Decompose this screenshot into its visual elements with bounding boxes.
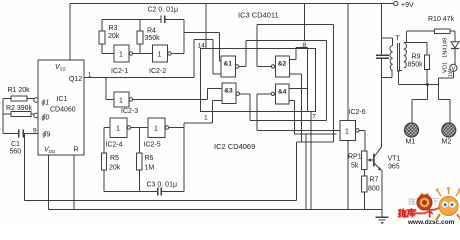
svg-text:IC2-2: IC2-2: [149, 68, 166, 75]
svg-text:IC2-5: IC2-5: [144, 142, 161, 149]
wire R9 bottom to output line: [426, 70, 428, 85]
ground symbol: [376, 217, 389, 222]
resistor R10: [434, 29, 450, 34]
svg-text:800: 800: [368, 186, 380, 193]
capacitor C2: [161, 16, 165, 24]
svg-text:20k: 20k: [109, 165, 121, 172]
svg-text:M2: M2: [442, 139, 452, 146]
svg-text:R9: R9: [412, 54, 421, 61]
wire IC2-4 input / R5 top: [104, 128, 110, 154]
wire pin8 net vertical inside box: [307, 48, 309, 112]
potentiometer RP1: [361, 151, 374, 170]
wire IC2-4 out to IC2-5 in / R6 top: [129, 128, 148, 154]
svg-text:R: R: [74, 147, 79, 154]
svg-text:1: 1: [204, 115, 208, 122]
svg-text:R3: R3: [109, 25, 118, 32]
transistor VT1: [374, 147, 382, 171]
wire osc2 to &3 input B: [184, 101, 222, 124]
svg-text:20k: 20k: [108, 33, 120, 40]
wire secondary top to R9/R10: [404, 31, 434, 42]
svg-text:IC2-4: IC2-4: [106, 142, 123, 149]
wire osc1 top node: [102, 19, 161, 21]
wire C1 row to pin9: [3, 133, 38, 135]
svg-text:&3: &3: [224, 88, 233, 95]
transformer core: [397, 43, 399, 72]
IC3 CD4011 outline box: [201, 49, 316, 112]
wire V meter bottom to output line: [439, 72, 454, 85]
svg-text:T: T: [396, 36, 401, 43]
wire output line: [399, 84, 439, 86]
wire RP1 bottom to R7: [363, 170, 365, 177]
wire R9 top: [426, 43, 428, 56]
svg-text:Q12: Q12: [69, 76, 82, 83]
svg-text:1M: 1M: [145, 165, 155, 172]
wire +9V to IC3 pin8: [303, 4, 305, 43]
oscillator 1: R3 R4 C2 IC2-1 IC2-2: [102, 20, 221, 62]
terminal +9V: [394, 1, 398, 5]
resistor R5: [101, 153, 106, 170]
svg-text:1: 1: [119, 98, 123, 105]
wire left vertical tie R1/R2/C1: [2, 99, 4, 134]
nand gate &1: [221, 56, 239, 77]
wire Q12 up-over to &1 input B: [194, 40, 221, 78]
wire VT1 emitter to ground: [381, 171, 383, 217]
svg-text:560: 560: [10, 149, 22, 156]
wire +9V to transformer/C4: [381, 4, 383, 56]
wire y134 drop to rail B: [305, 134, 307, 210]
wire Q12 branch down to IC2-3 input: [106, 78, 114, 100]
wire &4 input B down: [289, 100, 336, 134]
wire +9V to IC2-6 power: [347, 4, 349, 121]
wire R2 row: [3, 113, 34, 115]
svg-text:R2 390k: R2 390k: [6, 105, 33, 112]
svg-text:CD4060: CD4060: [50, 107, 76, 114]
watermark mascot right: [425, 187, 460, 220]
svg-text:RP1: RP1: [348, 154, 362, 161]
IC1 CD4060 box: [38, 60, 84, 155]
svg-text:ϕ1: ϕ1: [42, 100, 50, 107]
wire &2 input A tied to pin8: [289, 48, 307, 60]
speaker M2: [442, 123, 456, 137]
svg-text:R5: R5: [110, 155, 119, 162]
wire &2 output over the top to right drop: [257, 24, 334, 142]
wire IC1 R pin down: [73, 155, 75, 210]
wire VT1 collector up to transformer: [381, 78, 383, 147]
inverter IC2-2: [153, 45, 172, 62]
wire R7 bottom to rail B: [363, 192, 365, 210]
oscillator 2: IC2-4 IC2-5 R5 R6 C3: [104, 101, 222, 192]
wire IC2-3 output to &3 input A: [133, 89, 222, 100]
wire IC2-6 ground lead: [347, 140, 349, 210]
svg-text:R6: R6: [145, 155, 154, 162]
wire +9V to IC3 pin14: [205, 4, 207, 49]
resistor R7: [361, 176, 367, 192]
wire branch osc1 to gate &1 input A: [184, 33, 221, 62]
svg-text:1: 1: [119, 52, 123, 59]
wire primary top link: [382, 38, 393, 46]
inverter IC2-5: [148, 118, 169, 138]
wire C2 right to feedback: [165, 19, 184, 21]
svg-text:5k: 5k: [351, 163, 359, 170]
svg-text:1: 1: [158, 52, 162, 59]
watermark ghost text: [409, 198, 439, 205]
junction node output: [426, 83, 429, 86]
wire R6 bottom to C3 line: [138, 170, 140, 192]
wire R1 row: [3, 98, 34, 100]
svg-text:M1: M1: [406, 139, 416, 146]
wire &4 input A: [289, 87, 308, 89]
wire R4 leg: [139, 20, 141, 54]
svg-text:www.dzsc.com: www.dzsc.com: [407, 219, 455, 225]
wire M2 branch: [439, 85, 450, 124]
wire R5 bottom to C3 line: [103, 170, 105, 192]
svg-text:350k: 350k: [145, 35, 161, 42]
resistor R6: [137, 153, 142, 170]
speaker M1: [405, 123, 419, 137]
pin bubble phi1: [34, 98, 38, 102]
inverter IC2-3: [114, 92, 133, 107]
wire IC2-6 out to RP1: [359, 130, 365, 151]
pin bubble phi0: [34, 113, 38, 117]
Q12 output net: [84, 40, 221, 100]
nand gate &4 (mirrored): [271, 84, 289, 104]
wire IC2-5 out: [169, 127, 184, 129]
label pin 8: [301, 41, 307, 47]
wire cross link y142: [297, 141, 334, 143]
svg-text:&4: &4: [278, 89, 287, 96]
wire feedback vertical to IC2-2 out: [171, 20, 184, 54]
wire Q12 to right: [84, 77, 194, 79]
wire &3 output to right drop: [240, 94, 327, 121]
wire rail A up link: [296, 142, 298, 201]
wire IC3 pin7 ground: [310, 112, 312, 210]
svg-text:R10 47k: R10 47k: [428, 16, 455, 23]
svg-text:ϕ̄9: ϕ̄9: [43, 132, 51, 139]
transformer secondary winding: [404, 43, 407, 68]
wire top +9V rail: [70, 3, 394, 5]
wire R3 leg: [102, 20, 114, 54]
svg-text:&2: &2: [278, 61, 287, 68]
svg-text:1: 1: [345, 129, 349, 136]
capacitor C4 across primary: [376, 55, 389, 58]
wire IC2-1 out to IC2-2 in: [133, 53, 153, 55]
wire secondary bottom down: [399, 70, 403, 84]
wire &1 output over the top to right drop: [239, 40, 327, 120]
svg-text:14: 14: [198, 43, 206, 50]
wire diode to V meter: [454, 49, 456, 65]
inverter IC2-1: [114, 45, 133, 62]
resistor R1: [11, 96, 27, 101]
wire &2 input B down: [289, 74, 301, 142]
svg-text:C2 0. 01μ: C2 0. 01μ: [148, 7, 179, 14]
meter V symbol: [450, 64, 457, 72]
wire C1 right down to bottom rail A: [23, 134, 25, 201]
resistor R2: [11, 112, 31, 117]
wire IC1 VDD down: [47, 155, 49, 210]
inverter IC2-6: [340, 121, 359, 141]
transformer T primary winding: [390, 46, 393, 71]
svg-text:1: 1: [154, 126, 158, 133]
svg-text:+9V: +9V: [401, 2, 414, 9]
watermark mascot left: [417, 193, 432, 211]
svg-text:7: 7: [312, 114, 316, 121]
svg-text:R1 20k: R1 20k: [8, 87, 31, 94]
svg-text:C3 0. 01μ: C3 0. 01μ: [147, 182, 178, 189]
svg-text:IC3 CD4011: IC3 CD4011: [238, 11, 279, 20]
svg-text:IC2-3: IC2-3: [121, 108, 138, 115]
resistor R3: [99, 31, 105, 44]
wire &4 output to IC2-6 input: [257, 94, 340, 131]
resistor R9: [425, 55, 430, 70]
inverter IC2-4: [110, 118, 131, 138]
capacitor C3: [158, 188, 162, 196]
svg-text:850k: 850k: [408, 62, 424, 69]
svg-text:IC2-1: IC2-1: [111, 68, 128, 75]
nand gate &2 (mirrored): [271, 56, 289, 77]
capacitor C1: [19, 130, 24, 138]
wire R10 right to diode: [450, 31, 455, 41]
svg-text:IC2-6: IC2-6: [349, 109, 366, 116]
svg-text:VT1: VT1: [388, 156, 401, 163]
wire C3 line: [104, 191, 184, 193]
svg-text:1: 1: [116, 126, 120, 133]
svg-text:ϕ̄0: ϕ̄0: [42, 115, 50, 122]
svg-text:&1: &1: [224, 61, 233, 68]
wire Vss drop to IC1: [69, 4, 71, 61]
label pin 7: [312, 112, 316, 118]
watermark red title shadow: [399, 209, 435, 217]
svg-text:965: 965: [388, 164, 400, 171]
wire M1 branch: [412, 85, 427, 124]
svg-text:C1: C1: [11, 141, 20, 148]
nand gate &3: [222, 83, 240, 104]
wire bottom rail B: [48, 209, 382, 211]
watermark red title: [398, 209, 434, 217]
wire bottom rail A: [24, 200, 296, 202]
svg-text:R4: R4: [147, 28, 156, 35]
diode VD1: [451, 42, 459, 49]
svg-text:IC2 CD4069: IC2 CD4069: [214, 142, 255, 151]
wire C4 bottom / primary bottom: [382, 59, 392, 78]
svg-text:R7: R7: [370, 177, 379, 184]
svg-text:IC1: IC1: [57, 96, 68, 103]
svg-text:V: V: [451, 66, 455, 72]
wire C3 feedback vertical: [183, 123, 185, 192]
resistor R4: [137, 31, 143, 44]
svg-text:1N4148: 1N4148: [443, 38, 449, 58]
